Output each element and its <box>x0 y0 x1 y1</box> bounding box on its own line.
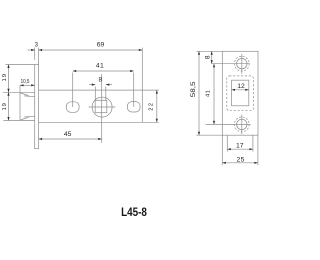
centerlines through spindle <box>89 106 116 108</box>
svg-text:45: 45 <box>64 131 72 138</box>
latch body outline (side view) <box>39 89 143 91</box>
dim 58,5 plate height <box>196 134 222 136</box>
dim 17 cutout width <box>226 135 228 151</box>
svg-text:12: 12 <box>237 83 245 90</box>
top screw hole <box>237 59 247 69</box>
svg-text:17: 17 <box>236 142 244 149</box>
svg-text:10,5: 10,5 <box>21 79 30 85</box>
dim 19 lower <box>8 92 10 120</box>
bottom screw hole <box>237 119 247 129</box>
svg-text:69: 69 <box>97 41 105 48</box>
dashed latch cutout outline <box>227 76 254 111</box>
faceplate edge view (3mm bar) <box>35 65 39 149</box>
dim 41 screw spacing <box>213 64 215 125</box>
svg-text:41: 41 <box>96 63 104 70</box>
left oval hole in body <box>66 102 79 113</box>
dim 45 backset <box>39 138 102 140</box>
svg-text:L45-8: L45-8 <box>121 207 147 219</box>
svg-text:8: 8 <box>99 77 103 84</box>
dim 25 plate width <box>221 135 223 165</box>
svg-text:3: 3 <box>35 43 39 49</box>
svg-text:8: 8 <box>205 55 212 59</box>
spindle circle <box>92 97 112 117</box>
dim 12 hole width <box>232 89 249 91</box>
dim 3 faceplate thickness <box>34 48 36 60</box>
svg-text:25: 25 <box>237 156 245 163</box>
dim 22 body height <box>142 89 159 91</box>
spindle square 8mm <box>95 100 107 112</box>
dim 10,5 bolt throw <box>19 85 21 92</box>
svg-text:19: 19 <box>2 102 8 110</box>
dim 8 top margin <box>196 50 222 52</box>
right oval hole in body <box>127 102 140 112</box>
square latch hole <box>232 80 249 106</box>
svg-text:41: 41 <box>206 90 212 97</box>
faceplate front view <box>222 51 258 135</box>
dim 8 spindle square <box>94 87 96 101</box>
dim 19 upper <box>5 64 34 66</box>
svg-text:19: 19 <box>2 73 8 81</box>
svg-text:22: 22 <box>148 102 154 111</box>
latch bolt with bevel <box>19 92 21 120</box>
dim 69 body length <box>141 48 143 91</box>
dim 41 hole spacing <box>72 73 74 108</box>
svg-text:58,5: 58,5 <box>191 81 197 98</box>
